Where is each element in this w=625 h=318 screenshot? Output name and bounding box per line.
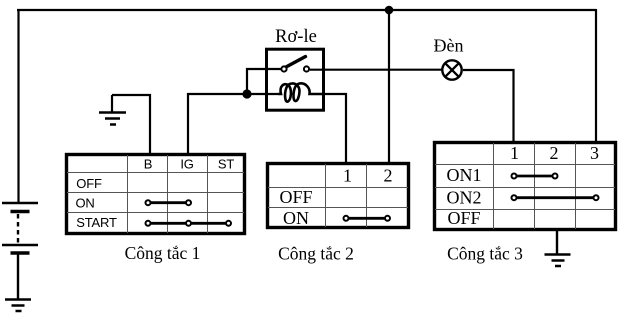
- svg-text:IG: IG: [180, 157, 193, 172]
- wire: switch1 pin IG up and right to relay node: [188, 94, 278, 153]
- svg-text:2: 2: [384, 166, 393, 186]
- svg-text:Công tắc 1: Công tắc 1: [125, 243, 201, 263]
- wire: top bus right drop to switch3 pin 3: [595, 9, 597, 142]
- contact: switch3 ON1 position 1-2: [512, 174, 558, 179]
- switch table: Công tắc 2: [268, 164, 409, 229]
- ground: switch 1 B terminal: [99, 95, 126, 125]
- wire: top bus down to switch2 pin 2: [388, 10, 390, 163]
- svg-text:ST: ST: [218, 157, 234, 172]
- svg-text:OFF: OFF: [76, 176, 102, 191]
- ground: switch 3: [545, 255, 571, 267]
- svg-text:1: 1: [510, 143, 519, 163]
- svg-text:START: START: [76, 215, 117, 230]
- wire: left drop to battery: [17, 9, 19, 203]
- svg-text:Đèn: Đèn: [434, 36, 464, 56]
- relay contact terminal left: [281, 66, 286, 71]
- contact: switch3 ON2 position 1-3: [512, 195, 599, 200]
- contact: switch1 START position B-IG-ST: [146, 221, 232, 226]
- wire: battery negative to ground: [17, 254, 19, 299]
- svg-text:ON1: ON1: [447, 165, 482, 185]
- svg-text:Công tắc 2: Công tắc 2: [278, 244, 354, 264]
- wire: relay contact output to lamp: [310, 69, 442, 71]
- wire: ground to switch1 pin B: [112, 95, 150, 153]
- relay box U1: [267, 49, 324, 110]
- wire: relay coil output down to switch2 pin 1: [322, 94, 346, 163]
- lamp Đèn: [442, 60, 461, 79]
- contact: switch1 ON position B-IG: [146, 200, 192, 205]
- svg-text:2: 2: [550, 143, 559, 163]
- svg-text:Công tắc 3: Công tắc 3: [447, 244, 523, 264]
- ground: battery: [5, 300, 31, 312]
- node: top bus junction: [385, 6, 394, 15]
- wire: lamp to switch3 pin 1: [463, 70, 514, 142]
- svg-text:3: 3: [590, 143, 599, 163]
- svg-text:ON2: ON2: [447, 188, 482, 208]
- svg-text:ON: ON: [75, 196, 94, 211]
- switch table: Công tắc 3: [435, 143, 616, 230]
- wire: junction up to relay contact input: [247, 69, 282, 94]
- battery B1: [2, 203, 38, 253]
- svg-text:Rơ-le: Rơ-le: [275, 27, 317, 47]
- relay contact lever: [286, 57, 306, 68]
- wire: top supply bus: [17, 9, 596, 11]
- switch table: Công tắc 1: [67, 155, 245, 234]
- svg-text:OFF: OFF: [279, 187, 312, 207]
- svg-text:ON: ON: [283, 208, 309, 228]
- contact: switch2 ON position 1-2: [344, 216, 391, 221]
- svg-text:OFF: OFF: [447, 208, 480, 228]
- svg-text:B: B: [144, 157, 152, 172]
- relay coil: [278, 83, 322, 101]
- node: relay feed junction: [242, 89, 251, 98]
- relay contact terminal right: [304, 66, 309, 71]
- svg-text:1: 1: [343, 166, 352, 186]
- wire: switch3 pin 2 to ground: [556, 230, 558, 254]
